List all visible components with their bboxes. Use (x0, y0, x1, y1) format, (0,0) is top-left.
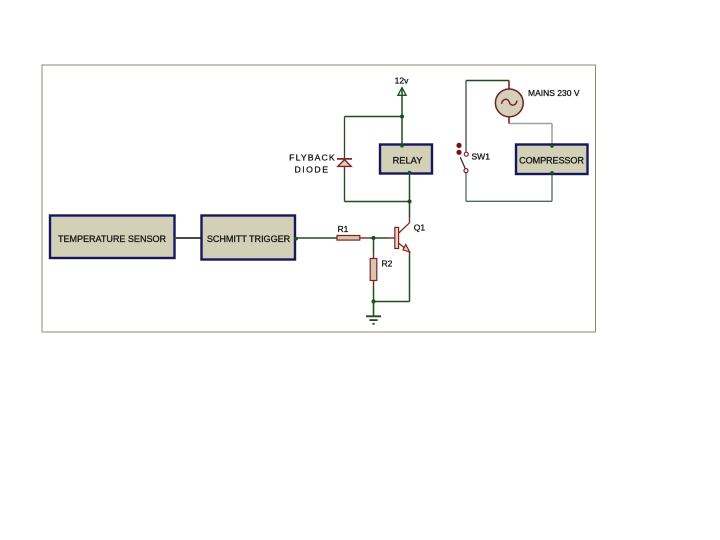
wire R1 to base node (360, 237, 370, 239)
label FLYBACK DIODE (289, 152, 336, 174)
svg-text:RELAY: RELAY (393, 156, 423, 166)
wire 12v rail horizontal (345, 116, 403, 118)
schmitt trigger box (202, 216, 298, 260)
wire diode top drop (344, 117, 346, 159)
svg-text:FLYBACK: FLYBACK (289, 152, 336, 162)
svg-text:DIODE: DIODE (294, 165, 329, 175)
node base junction (371, 236, 375, 240)
svg-text:COMPRESSOR: COMPRESSOR (519, 155, 584, 165)
svg-text:Q1: Q1 (414, 222, 426, 232)
svg-text:R2: R2 (382, 259, 393, 269)
ground (366, 302, 381, 324)
wire trigger to R1 (297, 237, 337, 239)
wire diode bottom horizontal (345, 201, 410, 203)
switch SW1 (456, 143, 490, 173)
wire collector (409, 217, 411, 223)
wire compressor top (551, 124, 553, 145)
wire emitter (409, 252, 411, 256)
wire sensor to trigger (175, 237, 202, 239)
compressor box (516, 144, 588, 174)
wire mains loop top (466, 80, 509, 82)
svg-text:12v: 12v (395, 76, 409, 86)
AC source V1 mains (495, 81, 523, 124)
wire relay bottom (409, 174, 411, 202)
wire R2 to ground node (373, 281, 375, 287)
wire mains loop bottom (466, 200, 552, 202)
node collector junction (407, 199, 411, 203)
resistor R1 (337, 224, 360, 240)
diode D1 flyback (337, 159, 352, 172)
wire mains loop left upper (465, 81, 467, 153)
svg-text:SW1: SW1 (472, 152, 491, 162)
wire mains loop left lower (465, 172, 467, 201)
svg-text:MAINS 230 V: MAINS 230 V (528, 88, 580, 98)
node 12v rail junction (400, 114, 404, 118)
svg-text:R1: R1 (338, 224, 349, 234)
wire compressor bottom (551, 175, 553, 202)
transistor Q1 (395, 222, 426, 252)
wire 12v vertical (401, 89, 403, 117)
sheet border (42, 65, 596, 332)
wire diode bottom drop (344, 172, 346, 202)
relay U1 box (380, 144, 432, 174)
wire relay top (401, 117, 403, 145)
wire ground node to emitter (374, 301, 410, 303)
temperature sensor box (50, 216, 175, 259)
resistor R2 (370, 259, 392, 281)
wire mains to compressor (509, 123, 552, 125)
svg-text:TEMPERATURE SENSOR: TEMPERATURE SENSOR (58, 234, 167, 244)
wire base node down to R2 (373, 238, 375, 254)
wire base node to Q1 (374, 237, 389, 239)
power terminal 12v (395, 76, 409, 96)
svg-text:SCHMITT TRIGGER: SCHMITT TRIGGER (207, 234, 291, 244)
node ground junction (371, 299, 375, 303)
